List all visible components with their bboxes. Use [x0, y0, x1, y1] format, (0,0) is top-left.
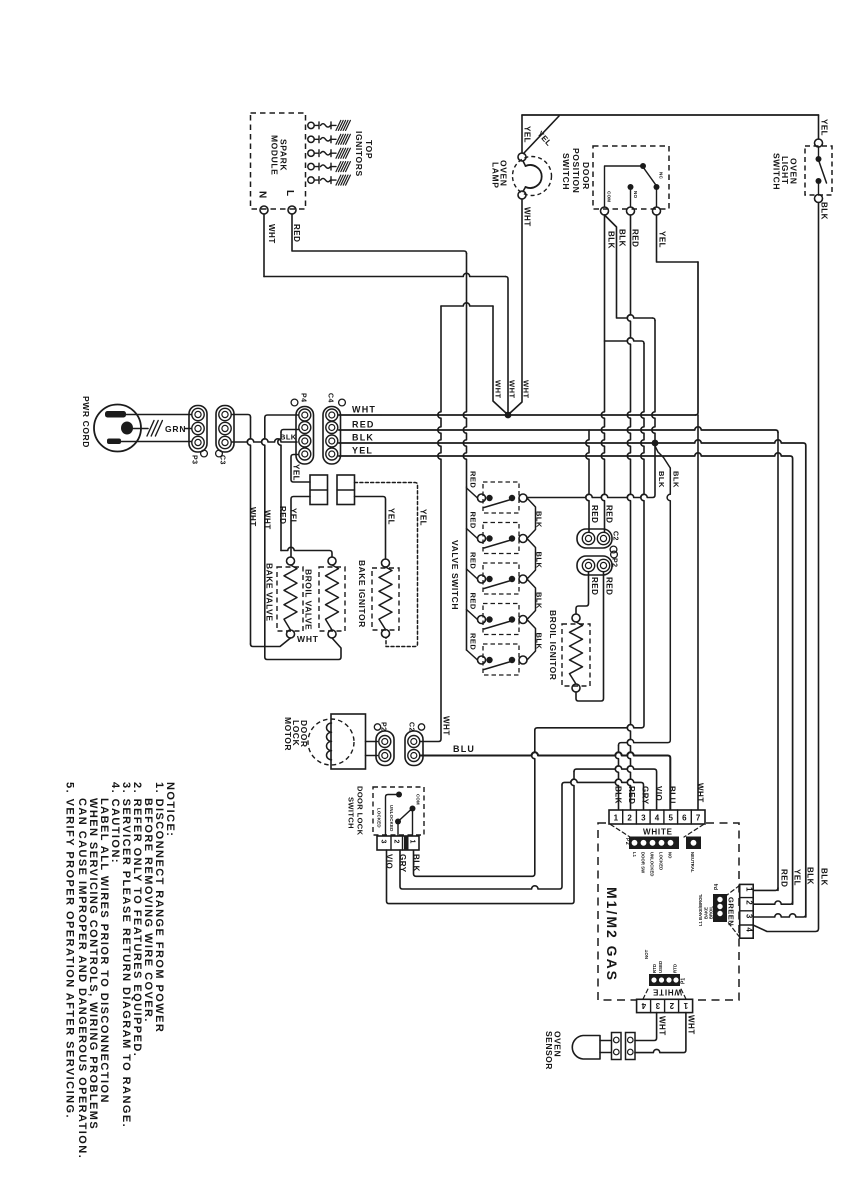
- svg-text:3: 3: [655, 1001, 660, 1010]
- svg-text:WHT: WHT: [267, 224, 276, 244]
- wire RED right strip pin1: [753, 888, 778, 891]
- M1/M2 GAS control dashed enclosure: [598, 823, 739, 1000]
- svg-text:NEUTRAL: NEUTRAL: [690, 852, 695, 873]
- svg-text:P2: P2: [624, 838, 630, 845]
- svg-text:2: 2: [669, 1001, 674, 1010]
- svg-text:YEL: YEL: [523, 126, 532, 143]
- svg-text:SWITCH: SWITCH: [347, 797, 356, 829]
- svg-text:2: 2: [627, 814, 632, 823]
- wire WHT valve returns: [251, 638, 291, 647]
- svg-text:SWITCH: SWITCH: [772, 153, 782, 190]
- svg-text:MOTOR: MOTOR: [283, 717, 293, 751]
- svg-text:BLK: BLK: [535, 592, 544, 609]
- wire GRY door lock switch to M1/M2 pin3: [400, 785, 562, 889]
- P1 WHITE connector bottom of M1/M2: [649, 974, 680, 986]
- wire BLK door position COM branch to door lock switch: [605, 338, 645, 344]
- wire K1 bottom to bake valve: [291, 497, 310, 558]
- svg-text:RED: RED: [469, 633, 478, 650]
- ground symbol and GRN wire: [133, 428, 148, 430]
- valve switch section 5: [483, 644, 519, 675]
- svg-text:RED: RED: [469, 471, 478, 488]
- svg-text:P2: P2: [380, 722, 387, 732]
- svg-text:BLK: BLK: [820, 202, 829, 220]
- M1/M2 7-pin terminal strip: [609, 810, 705, 824]
- svg-text:RED: RED: [278, 506, 287, 524]
- wire RED rail to broil valve: [281, 547, 332, 557]
- svg-text:P1: P1: [681, 978, 687, 984]
- svg-text:USED: USED: [658, 961, 663, 973]
- svg-text:C4: C4: [327, 393, 334, 403]
- svg-text:RED: RED: [631, 229, 640, 247]
- svg-text:WHT: WHT: [696, 783, 705, 803]
- svg-text:PWR CORD: PWR CORD: [81, 396, 91, 448]
- door lock motor M1: [308, 719, 354, 765]
- relay/regulator box K2: [337, 475, 355, 505]
- bus YEL: [339, 453, 793, 904]
- oven lamp DS1: [513, 157, 552, 196]
- svg-text:WHT: WHT: [658, 1016, 667, 1036]
- top ignitors (5 spark gaps): [308, 122, 314, 128]
- svg-text:WHT: WHT: [442, 716, 451, 736]
- svg-text:WHT: WHT: [494, 380, 503, 399]
- valve switch section 4: [483, 604, 519, 635]
- svg-text:WHITE: WHITE: [643, 828, 673, 837]
- broil ignitor resistor: [576, 572, 589, 614]
- svg-text:MODULE: MODULE: [270, 135, 280, 175]
- wire plug top to P3: [122, 414, 191, 416]
- svg-text:BLK: BLK: [535, 552, 544, 569]
- svg-text:YEL: YEL: [820, 119, 829, 136]
- svg-text:WHT: WHT: [352, 405, 376, 415]
- valve switch feeder RED vertical: [466, 487, 468, 650]
- svg-text:BLU: BLU: [453, 744, 475, 754]
- wire YEL oven lamp to top run: [521, 115, 523, 153]
- svg-text:SENSOR: SENSOR: [544, 1031, 554, 1070]
- wire RED P4 pin2 left and down to valves: [281, 430, 299, 433]
- svg-text:RED: RED: [605, 505, 614, 523]
- svg-text:IGNITORS: IGNITORS: [354, 131, 364, 177]
- oven light switch S3 dashed enclosure: [805, 146, 832, 195]
- svg-text:DOOR: DOOR: [581, 162, 591, 190]
- valve switch section 3: [483, 563, 519, 594]
- svg-text:BLK: BLK: [657, 471, 666, 488]
- svg-text:5: 5: [668, 814, 673, 823]
- svg-text:RED: RED: [780, 869, 789, 887]
- connector P2: [577, 556, 612, 575]
- svg-text:RED: RED: [605, 577, 614, 595]
- svg-text:L1: L1: [632, 852, 637, 858]
- svg-text:WHT: WHT: [248, 507, 257, 527]
- svg-text:NOT: NOT: [644, 949, 649, 959]
- oven lamp terminal top: [518, 153, 526, 161]
- connector P4: [296, 407, 314, 465]
- svg-text:GREEN: GREEN: [727, 897, 736, 926]
- svg-text:RED: RED: [627, 786, 636, 804]
- svg-text:P4: P4: [714, 884, 720, 890]
- svg-text:3: 3: [641, 814, 646, 823]
- svg-text:WHT: WHT: [508, 380, 517, 399]
- P4 GREEN connector right side of M1/M2: [713, 894, 727, 922]
- wire BLU door lock motor to M1/M2 pin5: [420, 752, 670, 809]
- svg-text:BLK: BLK: [618, 229, 627, 247]
- svg-text:TOP: TOP: [364, 140, 374, 159]
- wire RED from spark module L to valve switch feeder: [292, 214, 467, 254]
- wire WHT oven sensor to pin1: [635, 1013, 686, 1053]
- top horizontal run (oven lamp to oven light switch): [522, 114, 819, 116]
- valve switch section 2: [483, 523, 519, 554]
- svg-text:P3: P3: [191, 455, 198, 465]
- svg-text:WHT: WHT: [523, 207, 532, 227]
- svg-text:P4: P4: [300, 393, 307, 403]
- wire YEL K2 bottom to bake ignitor top: [355, 497, 386, 560]
- svg-text:BLK: BLK: [535, 511, 544, 528]
- svg-text:RED: RED: [590, 577, 599, 595]
- spark module U1 dashed enclosure: [251, 113, 306, 209]
- svg-text:RED: RED: [469, 512, 478, 529]
- svg-text:L: L: [284, 190, 295, 196]
- bus BLK: [339, 440, 806, 917]
- wire RED door position NO to M1/M2 pin2: [627, 215, 630, 809]
- svg-text:BLK: BLK: [535, 633, 544, 650]
- svg-text:UNLOCKED: UNLOCKED: [650, 852, 655, 877]
- svg-text:RTD: RTD: [652, 964, 657, 973]
- door lock switch terminal strip 3 2 1: [377, 836, 419, 850]
- door lock switch S5 dashed enclosure: [373, 787, 424, 835]
- bake valve resistor: [287, 557, 295, 565]
- svg-text:L1 BAKE/BROIL: L1 BAKE/BROIL: [698, 893, 703, 926]
- svg-text:2: 2: [393, 840, 400, 844]
- connector C2: [577, 529, 612, 548]
- connector P2 (door lock): [366, 742, 378, 756]
- svg-text:BLK: BLK: [806, 867, 815, 885]
- door position switch internals: [605, 166, 644, 207]
- svg-text:BAKE: BAKE: [704, 907, 709, 919]
- wire BLK right strip pin3: [753, 914, 806, 917]
- svg-text:6: 6: [682, 814, 687, 823]
- svg-text:UNLOCKED: UNLOCKED: [389, 805, 394, 831]
- svg-text:RED: RED: [469, 552, 478, 569]
- valve switch section 1: [483, 482, 519, 513]
- svg-text:M1/M2 GAS: M1/M2 GAS: [604, 887, 620, 982]
- svg-text:NO: NO: [668, 852, 673, 859]
- svg-text:CAN CAUSE IMPROPER AND DANGERO: CAN CAUSE IMPROPER AND DANGEROUS OPERATI…: [76, 798, 88, 1159]
- svg-text:YEL: YEL: [419, 509, 428, 526]
- svg-text:YEL: YEL: [292, 464, 301, 481]
- svg-text:4: 4: [655, 814, 660, 823]
- power cord plug face: [94, 405, 141, 452]
- wire RED bus to C2: [586, 430, 589, 532]
- door position switch S2 dashed enclosure: [593, 146, 669, 209]
- wire WHT from spark module N to WHT junction: [264, 273, 506, 276]
- svg-text:LAMP: LAMP: [491, 162, 501, 188]
- oven lamp terminal bottom: [518, 191, 526, 199]
- broil valve resistor: [328, 557, 336, 565]
- svg-text:1: 1: [745, 887, 754, 892]
- wire valve switch out to BLK bus junction: [527, 446, 655, 498]
- svg-text:C3: C3: [219, 455, 226, 465]
- svg-text:2: 2: [745, 900, 754, 905]
- oven light switch terminals and blade: [818, 115, 820, 139]
- wire YEL door position NC to WHT bus end: [657, 215, 699, 262]
- bus WHT: [339, 414, 696, 416]
- bus RED: [339, 427, 778, 433]
- svg-text:5. VERIFY PROPER OPERATION AFT: 5. VERIFY PROPER OPERATION AFTER SERVICI…: [64, 782, 76, 1119]
- svg-text:YEL: YEL: [289, 508, 298, 525]
- svg-text:BLK: BLK: [820, 868, 829, 886]
- connector P3: [189, 406, 207, 453]
- wire WHT P4 pin1 left and down (WHT#2): [265, 415, 299, 418]
- svg-text:1: 1: [409, 840, 416, 844]
- svg-text:7: 7: [696, 814, 701, 823]
- oven sensor connector blocks: [600, 1041, 612, 1053]
- wire VIO door lock switch to M1/M2 pin4: [387, 772, 575, 904]
- spark module terminal L: [288, 206, 296, 214]
- svg-text:COM: COM: [416, 794, 421, 805]
- relay/regulator box K1: [310, 475, 328, 505]
- svg-text:C2: C2: [408, 722, 415, 732]
- svg-text:LOCKED: LOCKED: [659, 852, 664, 870]
- wire C3 pin1 to P4 pin3 (BLK): [232, 439, 298, 442]
- oven sensor RT1 bulb: [572, 1036, 600, 1060]
- wire YEL right strip pin2: [753, 901, 792, 904]
- wire C3 pin3 down (WHT#1): [232, 415, 251, 418]
- connector C2 (door lock): [405, 731, 423, 766]
- wire BLK bus junction down to M1/M2 pin1: [655, 446, 670, 468]
- svg-text:N: N: [257, 191, 268, 198]
- node WHT bus junction: [505, 412, 512, 419]
- svg-text:RTD: RTD: [673, 964, 678, 973]
- M1/M2 bottom 4-pin strip: [637, 999, 693, 1012]
- svg-text:BROIL VALVE: BROIL VALVE: [304, 569, 314, 630]
- svg-text:YEL: YEL: [387, 508, 396, 525]
- connector C4: [323, 407, 341, 465]
- svg-text:BLK: BLK: [280, 433, 297, 442]
- svg-text:GRY: GRY: [641, 786, 650, 805]
- svg-text:WHITE: WHITE: [652, 988, 682, 997]
- spark module terminal N: [260, 206, 268, 214]
- svg-text:POSITION: POSITION: [571, 148, 581, 193]
- svg-text:DOOR SW: DOOR SW: [641, 852, 646, 873]
- svg-text:WHT: WHT: [522, 380, 531, 399]
- svg-text:NO: NO: [633, 191, 638, 199]
- svg-text:WHT: WHT: [687, 1015, 696, 1035]
- node BLK bus junction: [652, 440, 659, 447]
- svg-text:VALVE SWITCH: VALVE SWITCH: [450, 540, 460, 610]
- svg-text:RED: RED: [590, 505, 599, 523]
- svg-text:DOOR LOCK: DOOR LOCK: [356, 786, 365, 836]
- svg-text:COM: COM: [607, 191, 612, 202]
- svg-text:4: 4: [745, 927, 754, 932]
- wire BLK oven light switch down right side to M1/M2 pin4 wire: [753, 203, 819, 932]
- svg-text:BLU: BLU: [668, 786, 677, 804]
- wire WHT bus tee at x698: [696, 262, 699, 415]
- svg-text:BAKE IGNITOR: BAKE IGNITOR: [357, 560, 367, 628]
- svg-text:1: 1: [614, 814, 619, 823]
- svg-text:4: 4: [641, 1001, 646, 1010]
- svg-text:P2: P2: [611, 558, 618, 568]
- wire WHT oven lamp down to junction: [510, 199, 523, 414]
- svg-text:1: 1: [683, 1001, 688, 1010]
- svg-text:YEL: YEL: [352, 446, 373, 456]
- svg-text:BROIL IGNITOR: BROIL IGNITOR: [548, 610, 558, 680]
- svg-text:3: 3: [380, 840, 387, 844]
- svg-text:YEL: YEL: [793, 869, 802, 886]
- wire / junction WHT triple: [441, 303, 493, 306]
- svg-text:NC: NC: [659, 172, 664, 180]
- svg-text:WHT: WHT: [263, 510, 272, 530]
- svg-text:RED: RED: [292, 224, 301, 242]
- wire BLK door position COM second to BLK bus: [605, 215, 653, 318]
- connector C3: [216, 406, 234, 453]
- svg-text:BLK: BLK: [412, 854, 421, 872]
- svg-text:VIO: VIO: [654, 786, 663, 801]
- svg-text:BLK: BLK: [672, 471, 681, 488]
- wire BLK door position COM (to C2): [601, 215, 604, 532]
- wire WHT door lock motor up (to WHT circuit): [420, 306, 441, 742]
- svg-text:LOCKED: LOCKED: [377, 808, 382, 828]
- svg-text:BLK: BLK: [614, 786, 623, 804]
- svg-text:RED: RED: [352, 420, 375, 430]
- svg-text:WHT: WHT: [297, 634, 319, 644]
- svg-text:YEL: YEL: [658, 231, 667, 248]
- svg-text:SWITCH: SWITCH: [561, 153, 571, 190]
- svg-text:BLK: BLK: [352, 433, 374, 443]
- svg-text:BAKE VALVE: BAKE VALVE: [265, 563, 275, 622]
- svg-text:RED: RED: [469, 593, 478, 610]
- wire plug bottom to P3: [119, 441, 191, 443]
- wire WHT oven sensor to pin3: [635, 1013, 657, 1041]
- wire YEL P4 pin4 down to relay box: [291, 455, 310, 483]
- door position switch terminals COM NO NC: [601, 207, 609, 215]
- wire YEL K2 top to bake ignitor bottom riser: [355, 483, 418, 647]
- svg-text:C2: C2: [612, 531, 619, 541]
- svg-text:GRN: GRN: [165, 424, 186, 434]
- svg-text:BROIL: BROIL: [709, 906, 714, 919]
- P2 WHITE connector inside M1/M2: [611, 825, 704, 838]
- svg-text:3: 3: [745, 914, 754, 919]
- svg-text:BLK: BLK: [607, 231, 616, 249]
- bake ignitor resistor: [382, 559, 390, 567]
- door lock switch internals: [396, 792, 402, 798]
- M1/M2 right 4-pin strip: [740, 884, 754, 938]
